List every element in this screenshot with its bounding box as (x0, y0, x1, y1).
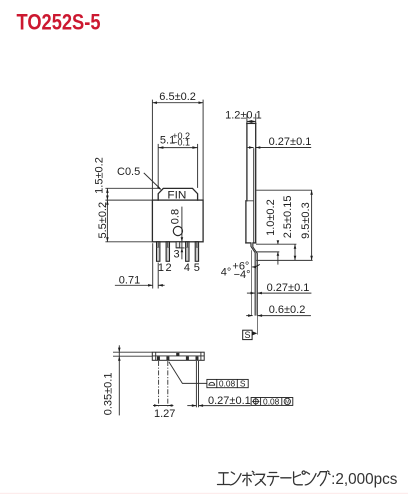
ー (281, 477, 291, 479)
angle label 4° +6°/−4° (221, 260, 260, 280)
footer note: emboss taping 2,000pcs (218, 471, 331, 486)
svg-text:1.5±0.2: 1.5±0.2 (93, 157, 105, 194)
svg-text:0.08: 0.08 (263, 396, 280, 406)
leader to profile tolerance frame (169, 362, 207, 384)
svg-text:0.08: 0.08 (219, 378, 236, 388)
extension to S datum (256, 316, 258, 335)
ピ (294, 471, 306, 485)
side view lead (251, 243, 257, 316)
dimension 0.27±0.1 (bottom view) (187, 361, 250, 407)
svg-text:4°: 4° (221, 267, 232, 279)
dimension 0.35±0.1 (102, 345, 152, 415)
lead 5 (195, 242, 198, 261)
extension line at lead tip plane (side) (256, 259, 312, 261)
hole circle (173, 226, 182, 235)
テ (268, 473, 279, 486)
hole leader line (181, 207, 183, 260)
ボ (243, 471, 255, 485)
extension line at lead bend end (side) (256, 251, 279, 253)
pin3 stub tip extension (176, 247, 185, 249)
svg-text:1.0±0.2: 1.0±0.2 (265, 199, 277, 236)
svg-text:0.71: 0.71 (119, 275, 140, 287)
side view body (246, 201, 256, 243)
dimension 1.5±0.2 (93, 157, 158, 200)
svg-text:9.5±0.3: 9.5±0.3 (300, 202, 312, 239)
dimension 5.5±0.2 (97, 200, 153, 242)
svg-text::2,000pcs: :2,000pcs (331, 471, 398, 488)
svg-text:4: 4 (184, 262, 190, 274)
svg-text:S: S (244, 330, 250, 340)
svg-text:2.5±0.15: 2.5±0.15 (282, 196, 294, 239)
bottom view bar outline (152, 352, 204, 360)
ン (305, 472, 316, 485)
side view tab outline (247, 123, 256, 242)
dimension 9.5±0.3 (300, 190, 313, 260)
svg-text:C0.5: C0.5 (117, 166, 140, 178)
dimension 0.71 (115, 243, 165, 288)
dimension 1.2±0.1 (225, 110, 262, 124)
front view fin tab (158, 188, 197, 200)
svg-text:0.6±0.2: 0.6±0.2 (269, 304, 306, 316)
svg-text:−0.1: −0.1 (172, 138, 190, 148)
svg-text:0.27±0.1: 0.27±0.1 (269, 136, 312, 148)
svg-text:0.35±0.1: 0.35±0.1 (102, 373, 114, 416)
feature control frame: profile 0.08 S (207, 378, 248, 388)
svg-text:0.27±0.1: 0.27±0.1 (208, 395, 251, 407)
svg-text:0.27±0.1: 0.27±0.1 (267, 282, 310, 294)
グ (318, 471, 330, 486)
svg-text:1.27: 1.27 (154, 408, 175, 420)
dimension 5.1 +0.2/-0.1 (158, 131, 197, 188)
dimension 0.27±0.1 lead thickness (247, 282, 312, 295)
エ (218, 473, 230, 485)
svg-text:1: 1 (158, 262, 164, 274)
dimension 1.0±0.2 (265, 199, 279, 264)
svg-text:0.8: 0.8 (169, 209, 181, 224)
chamfer callout C0.5 (117, 166, 161, 190)
centerline pin2 (bottom view) (167, 361, 169, 407)
svg-text:−4°: −4° (234, 269, 251, 281)
svg-text:1.2±0.1: 1.2±0.1 (225, 110, 262, 122)
bottom view lead sections (157, 353, 199, 360)
ン (230, 472, 241, 485)
extension line at fin top (side) (256, 189, 312, 191)
svg-text:6.5±0.2: 6.5±0.2 (159, 91, 196, 103)
svg-text:S: S (240, 378, 246, 388)
dimension 0.27±0.1 fin thickness (248, 136, 312, 149)
dimension 1.27 (153, 404, 175, 420)
feature control frame: position 0.08 M (251, 396, 293, 406)
svg-text:5: 5 (194, 262, 200, 274)
front view package body (152, 200, 203, 242)
svg-text:3: 3 (174, 248, 180, 260)
dimension 6.5±0.2 (152, 91, 203, 199)
svg-text:TO252S-5: TO252S-5 (17, 9, 101, 34)
dimension 0.6±0.2 (246, 304, 311, 317)
lead 4 (186, 242, 189, 261)
extension line at body bottom (side) (256, 243, 296, 245)
pin 3 stub (176, 242, 180, 248)
datum S symbol (side view) (243, 330, 258, 340)
dimension 2.5±0.15 (282, 196, 296, 261)
ス (255, 474, 265, 485)
lead 1 (157, 242, 160, 261)
svg-text:2: 2 (165, 262, 171, 274)
centerline pin1 (bottom view) (158, 361, 160, 407)
lead angle reference line (251, 250, 253, 315)
lead 2 (166, 242, 169, 261)
svg-text:5.5±0.2: 5.5±0.2 (97, 202, 109, 239)
svg-text:FIN: FIN (167, 190, 186, 202)
svg-text:M: M (285, 400, 290, 406)
